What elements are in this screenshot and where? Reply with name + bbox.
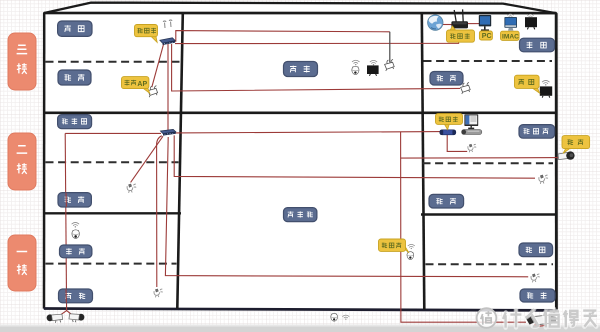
gate bullet cam right [69,314,84,322]
svg-text:IMAC: IMAC [502,33,519,40]
dashed 1F left [46,263,177,265]
slab 2F/1F left [44,212,181,214]
dashed 2F left [46,161,179,163]
interior wall right [422,13,425,310]
switch SW2 2F [160,129,175,135]
house white fill [44,12,557,310]
living room dome cam + wifi [352,60,359,65]
slab 2F/1F right [421,213,556,215]
ceiling [44,12,556,15]
wire living AP drop (dark) [389,32,391,63]
TV studio black [525,17,537,29]
label 车库 [60,245,92,258]
dashed 2F right [423,162,554,164]
east outdoor bullet cam [558,151,575,159]
switch SW1 3F [160,38,175,45]
right wall [555,13,558,310]
south-east bullet cam [526,315,556,326]
label 架空层 [284,208,317,222]
wire switch2F west [65,132,161,134]
TV 3F-right bedroom + wifi [542,80,549,85]
switch blue 2F-right [440,130,456,135]
floor tag 一楼 [8,235,36,291]
yellow callout 探头 [562,136,590,154]
yellow callout 无线AP [122,77,150,94]
router wifi [451,9,468,28]
label 厨房 [519,243,553,257]
label 卧室 3F-right [430,72,463,86]
small cam tearoom [154,289,163,297]
label 鼓房 [58,21,92,36]
svg-text:PC: PC [482,33,492,40]
wire fork to gate cams [58,311,75,317]
wire router-PC [468,23,480,25]
PC monitor [479,15,491,31]
globe internet [428,15,443,30]
roof [44,3,556,14]
small cam dining [531,274,540,282]
wire overlay across 茶室 label [65,289,67,303]
iMac [504,17,517,31]
garage dome cam + wifi [72,222,79,227]
living room TV + antenna [367,60,379,75]
label 卧室 2F-right [429,194,464,208]
small cam 2F-left bedroom [127,184,136,193]
grey footer band [0,327,600,332]
wire switch3F to wireless AP [152,44,164,87]
yellow callout 路由器 [447,26,475,42]
small cam 2F-right bedroom [539,175,548,184]
bottom outdoor dome cam + wifi right [331,313,338,321]
svg-text:AP: AP [137,81,147,88]
yellow callout IMAC [501,31,520,40]
label 客厅 [284,62,318,77]
dashed room dividers [46,61,554,264]
floor tag 三楼 [8,33,36,90]
gate bullet cam left [47,314,63,323]
interior wall left [177,13,183,309]
wire switch3F to AP living room (red part) [175,31,390,42]
label 书房 [520,38,555,52]
wire branch to outdoor cam east [401,157,562,160]
AP wireless 3F-left [148,86,158,98]
yellow callout 录像机 [436,114,463,130]
dashed 3F left [46,61,181,63]
dashed 1F right [426,263,554,265]
floor tag 二楼 [8,133,36,190]
label 储物间 [58,115,92,129]
wire NVR to mahjong cam [447,135,467,151]
left wall [43,13,46,309]
wire switch2F to dining cam [165,137,528,277]
courtyard dome cam + wifi [408,244,415,249]
yellow callout 摄像头 [379,239,410,253]
wire NVR branch down [401,132,526,323]
small cam 2F-right (mahjong) [468,144,476,152]
bottom wall [44,309,557,311]
wire switch3F down to switch2F [167,44,169,130]
wifi above TV studio [528,14,534,18]
label 餐厅 [520,289,555,302]
wire switch2F to 2F bedroom cam [131,136,163,182]
yellow callout PC [479,31,492,40]
wire switch2F to NVR [175,132,440,133]
yellow callout 交换机 [135,25,158,43]
NVR recorder grey [462,130,482,135]
slab 3F/2F [44,112,556,115]
AP 3F-right bedroom [461,82,471,94]
wifi above iMac [508,14,514,18]
wire switch2F to 2F right cam [174,135,535,178]
dashed 3F right [424,60,553,62]
wire switch3F to router [175,31,459,44]
label 棋牌室 [519,125,555,139]
label 茶室 [59,289,93,303]
wire switch3F down to bedroom AP [172,44,460,91]
red wires [58,24,562,323]
watermark smzdm [477,308,597,328]
yellow callout 电视 [515,75,540,93]
label 卧室 2F-left [58,193,91,207]
label 卧室 3F-left [58,70,91,85]
wire globe-router [443,24,452,26]
wire down garage/outdoor [65,133,66,311]
antenna above switch 3F [163,20,172,28]
NVR monitor 2F [464,114,478,129]
wire overlay across 卧室 2F-left label [65,193,67,207]
AP living room [385,59,395,71]
outer walls [44,13,557,310]
wire switch2F to tearoom cam [157,136,162,287]
